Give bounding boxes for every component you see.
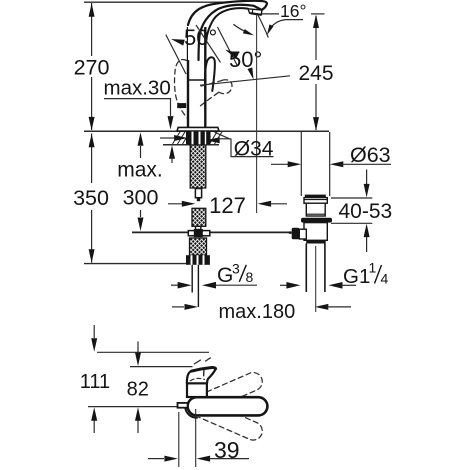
plan body: [187, 383, 207, 397]
supply nut G38: [186, 255, 210, 265]
faucet lever: [188, 1, 267, 60]
label dia34: [234, 137, 274, 160]
label 50deg right: [229, 47, 262, 72]
plan extension lines 39: [179, 409, 196, 467]
svg-text:max.: max.: [117, 158, 163, 181]
svg-text:39: 39: [214, 437, 240, 463]
hose upper end: [195, 189, 201, 202]
label max.: [117, 158, 163, 181]
label G38: [217, 260, 254, 287]
svg-text:Ø34: Ø34: [234, 137, 274, 160]
label 300: [123, 186, 159, 210]
drain tailpipe: [306, 244, 325, 293]
hose neck: [196, 226, 201, 229]
dimension 82: [135, 342, 141, 434]
dimension G38: [171, 282, 257, 289]
label 245: [298, 62, 333, 85]
angle leg left: [166, 35, 186, 74]
extension line supply end: [84, 263, 209, 265]
dimension 245 line: [313, 15, 319, 131]
deck bottom line: [163, 144, 219, 146]
dimension dia63: [271, 161, 391, 167]
drain rod block: [299, 229, 306, 239]
svg-text:G: G: [217, 264, 233, 287]
svg-text:127: 127: [209, 193, 246, 218]
hose segment lower: [190, 238, 207, 255]
escutcheon: [177, 127, 219, 131]
rod cross fitting: [188, 229, 210, 237]
label 16deg: [280, 1, 306, 21]
plan dashed spout position up: [194, 358, 265, 412]
label 270: [74, 56, 110, 80]
pull-rod knob: [177, 103, 186, 108]
faucet body left edge: [187, 27, 189, 127]
drain body: [304, 223, 327, 241]
angle 50 mid arrow: [225, 50, 239, 59]
leader dia34: [215, 132, 274, 156]
plan extension line body base: [88, 406, 178, 408]
svg-text:300: 300: [123, 186, 159, 210]
label 111: [80, 371, 110, 393]
dimension 111: [91, 325, 97, 433]
svg-text:40-53: 40-53: [339, 200, 393, 223]
svg-text:1: 1: [369, 260, 377, 276]
spout angle leg 16deg: [258, 15, 269, 38]
label max.30: [104, 77, 171, 100]
faucet spout top curve: [205, 8, 247, 48]
faucet body joint line: [188, 79, 205, 81]
dimension G114: [280, 282, 356, 289]
plan body bottom arc: [185, 407, 197, 418]
leader 16deg: [267, 20, 303, 36]
faucet lever tail horn: [205, 57, 215, 91]
svg-text:max.30: max.30: [104, 77, 171, 100]
drain neck: [306, 203, 325, 216]
dimension max300 upper arrow: [138, 132, 144, 158]
dimension 39: [148, 456, 249, 462]
dimension dia34 arrows: [160, 135, 230, 143]
mounting nut: [186, 132, 211, 145]
angle leg mid: [196, 25, 221, 62]
label 40-53: [339, 200, 393, 223]
dimension 350 line upper: [89, 134, 95, 184]
label 350: [73, 186, 109, 210]
plan dashed spout position down: [199, 401, 265, 443]
label 127: [209, 193, 246, 218]
drain plug top: [305, 195, 326, 198]
plan spout capsule: [188, 397, 268, 415]
angle leg mid2: [218, 27, 238, 66]
label 82: [127, 379, 149, 401]
drain seal ring: [301, 218, 332, 223]
drain pop-up knob: [289, 228, 300, 240]
dimension 350 line lower: [89, 210, 95, 263]
plan extension line handle front: [130, 366, 193, 368]
dimension 270 line lower: [89, 77, 95, 130]
spout outlet level line: [262, 13, 325, 15]
pop-up rod line: [132, 231, 290, 233]
svg-text:50°: 50°: [229, 47, 262, 72]
plan handle hidden edge: [190, 378, 204, 380]
svg-text:82: 82: [127, 379, 149, 401]
swivel plane line: [200, 76, 290, 85]
label dia63: [350, 143, 391, 167]
extension line faucet top: [84, 1, 237, 3]
angle 50 left arrow: [171, 39, 185, 46]
label 39: [214, 437, 240, 463]
svg-text:max.180: max.180: [219, 301, 296, 323]
plan aerator nub: [178, 403, 188, 408]
drain lower band: [306, 240, 326, 243]
spout aerator: [248, 9, 262, 15]
dimension max300 lower arrow: [138, 210, 144, 231]
dimension 40-53 lower: [331, 223, 372, 252]
svg-text:111: 111: [80, 371, 110, 393]
faucet dashed lever position right: [200, 80, 232, 106]
faucet dashed lever position left: [175, 59, 188, 118]
deck hatching left: [173, 132, 192, 144]
deck hatching right: [207, 132, 223, 144]
dimension 270 line upper: [89, 3, 95, 56]
supply tube: [192, 265, 198, 307]
svg-text:8: 8: [246, 269, 254, 285]
drain tailpipe axis: [315, 246, 317, 312]
arrow deck underside: [169, 145, 175, 163]
svg-text:50°: 50°: [184, 25, 217, 50]
label 50deg left: [184, 25, 217, 50]
drain flange: [304, 198, 327, 204]
svg-text:16°: 16°: [280, 1, 306, 21]
svg-text:G1: G1: [343, 265, 370, 288]
deck top line: [84, 130, 329, 132]
svg-text:3: 3: [232, 260, 240, 276]
label max.180: [219, 301, 296, 323]
svg-text:Ø63: Ø63: [350, 143, 391, 167]
svg-text:4: 4: [381, 271, 389, 287]
leader max.30: [104, 99, 174, 130]
curved arrow 16 left: [233, 24, 254, 35]
hose segment: [192, 208, 206, 226]
faucet body right edge: [204, 27, 206, 127]
spout axis extension line: [256, 15, 258, 213]
label G114: [343, 260, 389, 289]
plan handle: [187, 368, 216, 384]
plan extension line lever tip: [97, 351, 209, 353]
threaded shank: [190, 145, 206, 188]
tick arrow 50right: [248, 67, 254, 79]
dimension max180: [172, 304, 351, 310]
dimension 127: [168, 201, 287, 207]
dimension 40-53 upper: [331, 170, 372, 199]
drain extension lines: [301, 132, 329, 196]
svg-text:350: 350: [73, 186, 109, 210]
svg-text:245: 245: [298, 62, 333, 85]
